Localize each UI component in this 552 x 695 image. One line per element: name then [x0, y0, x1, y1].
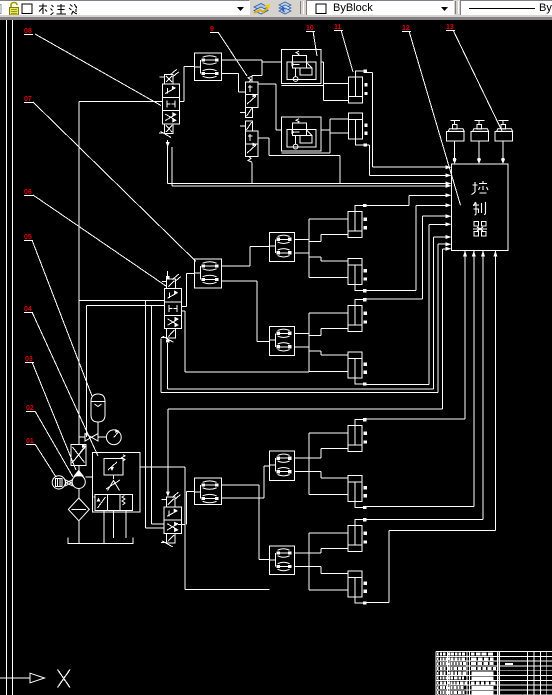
suction filter F1: [68, 498, 89, 521]
coupling between motor and pump: [66, 480, 73, 486]
signal bus wire V1-b to controller: [172, 185, 447, 187]
svg-text:9: 9: [210, 26, 214, 33]
wire S1 right port down to RV2 pilot: [258, 83, 276, 85]
wire TG outputs to cylinders C9 C10: [295, 552, 310, 554]
item label 13: [446, 24, 455, 31]
wire TE out2 to block TF: [222, 497, 264, 499]
shut-off valve: [85, 434, 98, 441]
svg-text:03: 03: [25, 356, 33, 363]
item label 08: [24, 28, 33, 35]
cylinder C1: [349, 69, 368, 103]
V2 bottom electrical lead to controller: [167, 343, 169, 389]
V2 top electrical lead with connector: [167, 271, 169, 279]
wire V1 bottom solenoid lead: [167, 147, 169, 183]
svg-text:01: 01: [26, 438, 34, 445]
leader line for label 9: [218, 32, 247, 76]
wire PT1 to controller top: [454, 141, 456, 158]
wire V2 right port to throttle block TB: [182, 305, 187, 307]
wire TA right port 2 to solenoid valve S1: [222, 73, 239, 75]
pilot relief valve manifold RV2: [281, 117, 321, 151]
proportional directional valve V3 (bucket section): [161, 492, 182, 547]
item label 10: [306, 25, 315, 32]
cylinder C6: [348, 352, 367, 386]
accumulator AC1: [91, 394, 105, 422]
linetype combo box: [460, 0, 552, 16]
throttle-check block TF: [270, 451, 295, 480]
wire to V2 left port A: [79, 300, 165, 302]
wire S2 spring end down to signal bus: [251, 163, 253, 184]
wire RV1 outlet to cylinder C1 ports: [281, 85, 323, 87]
pump P1: [72, 471, 85, 489]
leader line for label 06: [33, 195, 166, 286]
wire TE out1 to block TG riser: [222, 484, 259, 486]
leader line for label 12: [409, 31, 461, 205]
wire filter to tank: [78, 521, 80, 544]
pressure transducer PT1: [446, 121, 464, 142]
leader line for label 05: [32, 240, 92, 396]
wire PT2 to controller top: [478, 141, 480, 158]
UCS icon X label: [58, 670, 71, 688]
item label 06: [24, 189, 33, 196]
throttle-check block TD: [270, 326, 295, 355]
pilot relief valve manifold RV1: [281, 49, 321, 83]
wire to V2 left port B: [86, 304, 164, 306]
wire TB out2 to block TD: [222, 280, 257, 282]
svg-text:13: 13: [446, 24, 454, 31]
V3 top electrical lead to controller: [167, 409, 169, 493]
proportional directional valve V2 (arm section): [161, 274, 182, 342]
throttle-check block TA: [195, 53, 222, 81]
item label 01: [26, 438, 35, 445]
cylinder C3: [348, 204, 367, 238]
sheet left border line (outer): [6, 19, 8, 695]
make-layer-current button: [252, 0, 272, 16]
proportional directional valve V1 (boom section): [159, 69, 180, 137]
wire C5 sensor to controller input 7: [366, 298, 423, 300]
throttle-check block TE: [195, 478, 222, 504]
title block text entries: [437, 653, 513, 695]
leader line for label 11: [341, 30, 353, 72]
throttle-check block TB: [195, 259, 222, 288]
item label 11: [334, 24, 343, 31]
wire C8 sensor to controller bottom input 2: [366, 506, 474, 508]
wire TA right port 1 to relief manifold RV1: [222, 59, 262, 61]
cylinder C7: [348, 418, 367, 452]
wire FCV to pump: [78, 466, 80, 471]
svg-text:06: 06: [24, 189, 32, 196]
cylinder C4: [348, 259, 367, 293]
svg-text:07: 07: [24, 96, 32, 103]
wire valve block drains to tank: [103, 511, 105, 544]
cylinder C8: [348, 476, 367, 510]
main pressure riser from pump: [78, 301, 80, 445]
pressure line down to bottom valve V3 port A: [151, 305, 153, 524]
svg-text:08: 08: [24, 28, 32, 35]
wire V1 right port to TA left port: [180, 101, 185, 103]
pressure transducer PT2: [471, 121, 489, 142]
wire C3 sensor to controller input 5: [366, 204, 409, 206]
wire pump outlet to valve block: [85, 476, 92, 478]
layer color swatch: [21, 3, 34, 16]
leader line for label 07: [33, 102, 196, 262]
wire S1 spring-end to junction: [252, 75, 262, 77]
cylinder C10: [348, 571, 367, 605]
wire V3 right port junction: [178, 524, 185, 526]
wire C10 sensor to controller bottom input 4: [366, 602, 389, 604]
wire C6 sensor to controller input 8: [366, 383, 429, 385]
oil tank: [68, 538, 133, 544]
relief/unloading valve block: [93, 453, 141, 513]
wire PT3 to controller top: [502, 141, 504, 158]
wire pump to filter: [78, 489, 80, 499]
wire C9 sensor to controller bottom input 3: [366, 519, 483, 521]
item label 03: [25, 356, 34, 363]
wire V1 second solenoid lead: [171, 147, 173, 186]
wire accumulator to gauge tee: [97, 422, 99, 437]
wire V1 left port down-leg: [79, 101, 163, 103]
wire TC outputs to cylinders C3 C4: [295, 238, 310, 240]
item label 02: [26, 405, 35, 412]
layer combo box: [0, 0, 250, 16]
solenoid valve S2: [240, 121, 258, 162]
svg-text:04: 04: [24, 306, 32, 313]
wire C4 sensor to controller input 6: [366, 289, 416, 291]
cylinder C5: [348, 298, 367, 332]
wire RV2 outlet to cylinder C2 ports: [281, 152, 330, 154]
item label 04: [24, 306, 33, 313]
UCS icon X axis: [0, 673, 45, 683]
arrow on V1 bottom stub: [166, 142, 170, 147]
pressure transducer PT3: [495, 121, 513, 142]
layer-previous button: [276, 0, 296, 16]
svg-text:05: 05: [24, 234, 32, 241]
solenoid valve S1: [240, 76, 258, 117]
wire TF outputs to cylinders C7 C8: [295, 457, 310, 459]
leader line for label 04: [32, 312, 98, 456]
svg-text:10: 10: [306, 25, 314, 32]
wire valve to gauge: [98, 436, 106, 438]
leader line for label 10: [313, 31, 317, 56]
V2 second electrical lead to controller: [160, 338, 162, 392]
wire valve-block outlet to V3 riser: [140, 466, 185, 468]
svg-text:02: 02: [26, 405, 34, 412]
wire C7 sensor to controller bottom input 1: [366, 418, 465, 420]
cylinder C2: [349, 113, 368, 147]
cylinder C9: [348, 518, 367, 552]
wire C1 sensor to controller input 1: [366, 71, 373, 73]
throttle-check block TC: [270, 232, 295, 261]
throttle-check block TG: [270, 546, 295, 574]
electric motor M1: [52, 476, 65, 489]
leader line for label 13: [453, 30, 502, 131]
bottom group return line: [185, 588, 270, 590]
wire TB out1 to block TC: [222, 265, 250, 267]
signal bus wire V1-a to controller: [168, 183, 447, 185]
sun icon (cut at edge): [0, 2, 5, 16]
variable throttle valve FCV: [71, 444, 86, 466]
layer name (CJK strokes: 标注线): [37, 2, 77, 16]
leader line for label 03: [32, 362, 76, 470]
pressure gauge G1: [106, 429, 121, 445]
item label 12: [402, 25, 411, 32]
leader line for label 02: [35, 411, 73, 477]
wire C2 sensor to controller input 2: [366, 144, 369, 146]
wire V2 return port to mid-group return: [182, 310, 185, 312]
item label 07: [24, 96, 33, 103]
item label 9: [210, 26, 219, 33]
controller U1 with Chinese label: [452, 164, 509, 251]
color combo box: [306, 0, 454, 16]
padlock icon: [7, 1, 22, 16]
wire S2 right port to drain header: [258, 137, 269, 139]
sheet left border line (inner): [12, 19, 14, 695]
item label 05: [24, 234, 33, 241]
wire TD outputs to cylinders C5 C6: [295, 332, 310, 334]
leader line for label 08: [35, 34, 161, 106]
title block parts list table: [436, 652, 552, 695]
svg-text:12: 12: [402, 25, 410, 32]
pressure line down to bottom valve V3 port B: [145, 301, 147, 528]
svg-text:11: 11: [334, 24, 342, 31]
leader line for label 01: [35, 444, 56, 477]
wire V3 A-line up to throttle block TE: [185, 492, 187, 525]
